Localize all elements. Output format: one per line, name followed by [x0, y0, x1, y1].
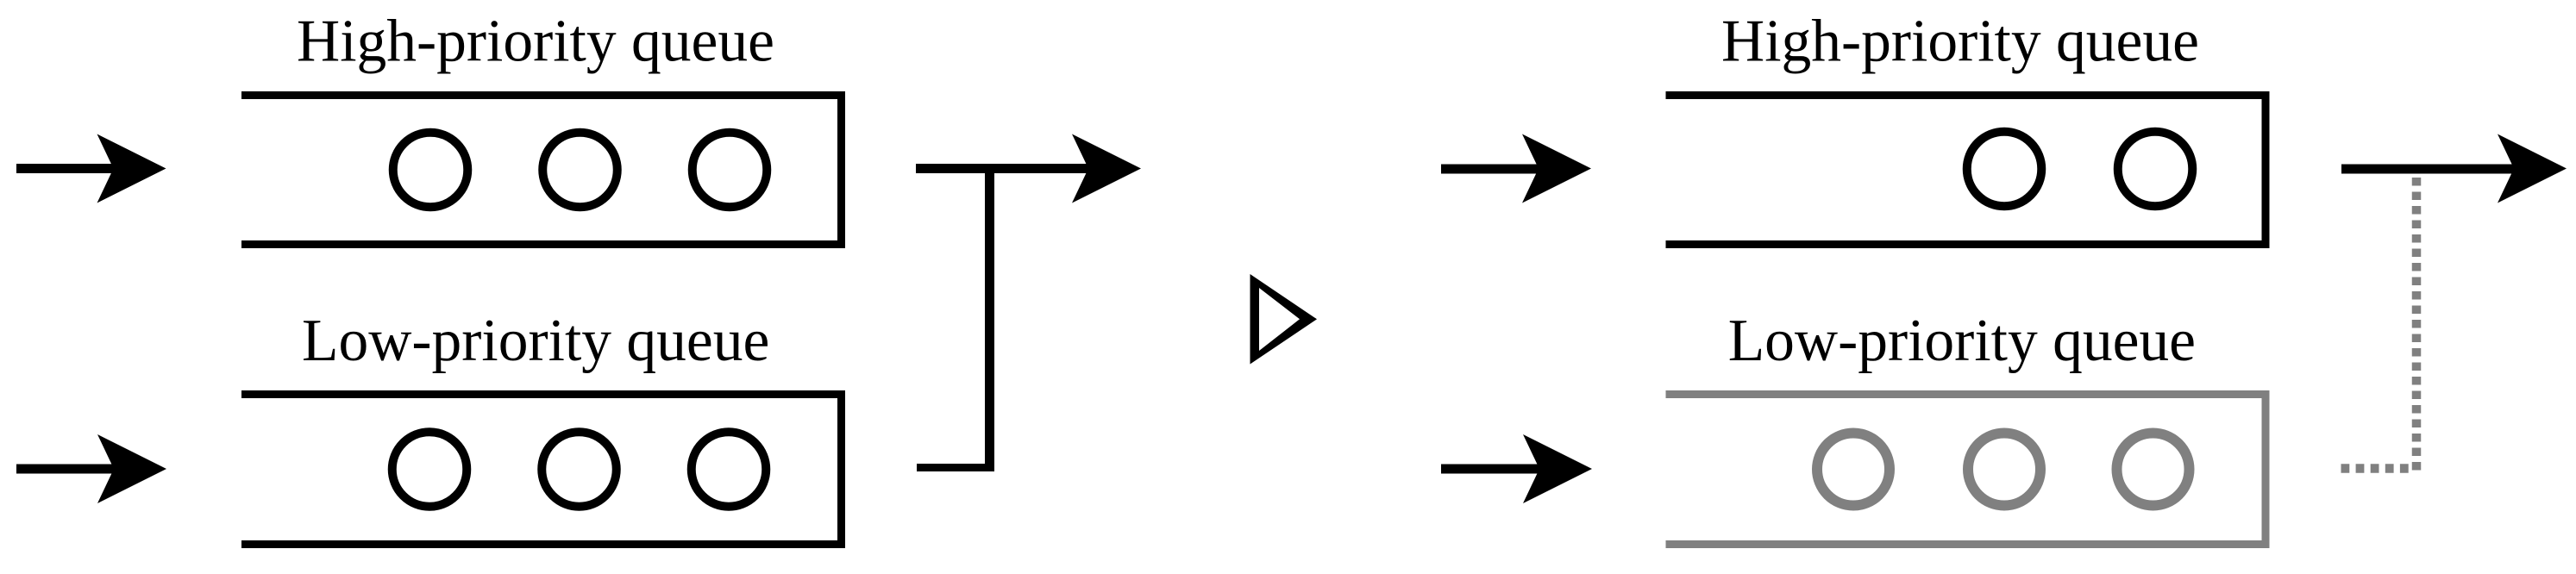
left high queue: customer circle 3 — [693, 133, 768, 208]
right low queue: gray customer circle 3 — [2117, 434, 2190, 506]
right low queue: gray customer circle 2 — [1968, 434, 2040, 506]
dotted bypass: horizontal gray dashed segment — [2341, 464, 2413, 473]
svg-text:High-priority queue: High-priority queue — [297, 8, 774, 74]
svg-text:High-priority queue: High-priority queue — [1721, 8, 2199, 74]
implication triangle (outline) — [1250, 274, 1318, 365]
merge: output arrowhead — [1072, 134, 1141, 203]
left high queue: customer circle 1 — [393, 133, 468, 208]
right high-priority queue box (open left) — [1666, 96, 2266, 245]
right low queue input arrow shaft — [1441, 465, 1541, 474]
right high queue: customer circle 1 — [1967, 132, 2042, 207]
left high queue: customer circle 2 — [542, 133, 617, 208]
svg-text:Low-priority queue: Low-priority queue — [1728, 308, 2196, 374]
left high queue input arrowhead — [97, 134, 166, 203]
dotted bypass: vertical gray dashed segment — [2412, 178, 2422, 473]
left low queue: customer circle 3 — [692, 432, 767, 507]
left low queue input arrow shaft — [16, 465, 116, 474]
right high queue input arrowhead — [1522, 134, 1591, 203]
left low-priority queue box (open left) — [241, 395, 842, 545]
left high-priority queue box (open left) — [241, 96, 842, 245]
right low queue: gray customer circle 1 — [1817, 434, 1890, 506]
right high queue input arrow shaft — [1441, 165, 1541, 174]
left high queue input arrow shaft — [16, 164, 116, 173]
right output arrow shaft — [2341, 165, 2516, 174]
merge: high queue output line — [916, 164, 1090, 173]
merge: low queue output stub — [917, 464, 994, 471]
left low queue: customer circle 1 — [392, 432, 467, 507]
left low queue input arrowhead — [97, 434, 166, 503]
right high queue: customer circle 2 — [2118, 132, 2193, 207]
svg-text:Low-priority queue: Low-priority queue — [302, 308, 769, 374]
left low queue: customer circle 2 — [542, 432, 617, 507]
right low queue input arrowhead — [1523, 434, 1592, 503]
right output arrowhead — [2498, 134, 2567, 203]
right low-priority queue box (gray, open left) — [1666, 395, 2266, 545]
merge: vertical connector — [985, 164, 994, 471]
